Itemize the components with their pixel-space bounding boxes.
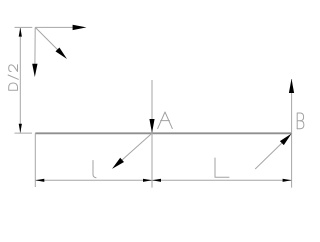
- wire: vector shaft down from corner node: [34, 27, 36, 65]
- dimension arrow l left: [35, 179, 44, 182]
- node A vertical line: [151, 80, 153, 188]
- extension line top left (D/2 upper): [15, 26, 33, 28]
- label l: [93, 161, 96, 178]
- dimension arrow l right: [143, 179, 152, 182]
- force arrow up at B: [289, 79, 294, 93]
- arrowhead diagonal up-right at B: [280, 134, 292, 146]
- wire: vector shaft diagonal from corner node: [35, 27, 58, 50]
- extension line bottom left (D/2 lower): [15, 132, 33, 134]
- label L: [215, 158, 229, 177]
- label A: [158, 112, 173, 129]
- wire: diagonal vector at B (up-right): [255, 141, 284, 169]
- beam (main horizontal line): [35, 132, 291, 134]
- wire: vector shaft right from corner node: [35, 26, 74, 28]
- dimension arrow D/2 top (up): [19, 28, 22, 37]
- dimension line D/2 (vertical): [19, 28, 21, 133]
- label B: [297, 113, 304, 129]
- label D/2 (rotated): [8, 65, 18, 91]
- arrowhead diagonal down-left at A: [112, 158, 124, 169]
- vector arrowhead diagonal down-right: [56, 48, 68, 60]
- dimension line bottom (l and L): [35, 179, 291, 181]
- dimension arrow D/2 bottom (down): [19, 124, 22, 133]
- dimension arrow L right: [283, 179, 292, 182]
- vector arrowhead down: [32, 64, 37, 77]
- vector arrowhead right: [73, 25, 87, 30]
- force arrow down at A: [149, 119, 154, 133]
- dimension arrow L left: [152, 179, 161, 182]
- extension line below beam left end: [34, 133, 36, 187]
- node B vertical line: [291, 79, 293, 188]
- wire: diagonal vector at A (down-left): [121, 133, 153, 161]
